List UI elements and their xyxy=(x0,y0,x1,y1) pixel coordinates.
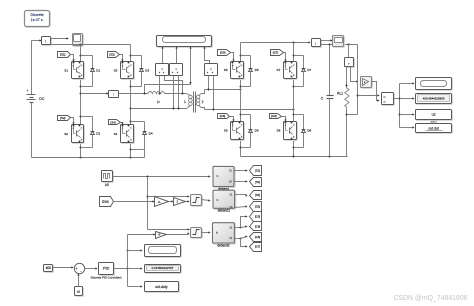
svg-text:[G5]: [G5] xyxy=(255,215,261,219)
svg-text:[G6]: [G6] xyxy=(220,114,226,118)
svg-text:D6: D6 xyxy=(255,128,259,132)
svg-text:[G8]: [G8] xyxy=(255,224,261,228)
svg-text:2: 2 xyxy=(202,100,204,104)
svg-text:[D(k)]: [D(k)] xyxy=(102,200,109,204)
svg-text:u2: u2 xyxy=(77,289,81,293)
svg-text:out.duty: out.duty xyxy=(155,285,168,289)
svg-text:-K-: -K- xyxy=(158,201,162,204)
svg-text:[S4]: [S4] xyxy=(110,120,115,124)
svg-text:[G7]: [G7] xyxy=(273,51,279,55)
svg-text:[G6]: [G6] xyxy=(255,235,261,239)
svg-text:S2: S2 xyxy=(64,132,68,136)
svg-text:S1: S1 xyxy=(64,68,68,72)
svg-text:deband2: deband2 xyxy=(217,243,230,247)
svg-text:[G7]: [G7] xyxy=(255,245,261,249)
svg-text:S5: S5 xyxy=(224,68,228,72)
svg-text:1: 1 xyxy=(184,100,186,104)
svg-text:[S3]: [S3] xyxy=(255,205,260,209)
svg-text:400: 400 xyxy=(46,266,52,270)
svg-text:1e-07 s.: 1e-07 s. xyxy=(31,18,44,22)
svg-text:D2: D2 xyxy=(96,132,100,136)
svg-text:S6: S6 xyxy=(224,129,228,133)
svg-text:out.dut: out.dut xyxy=(428,126,438,130)
svg-text:D1: D1 xyxy=(96,68,100,72)
svg-text:[S2]: [S2] xyxy=(255,180,260,184)
svg-text:[S3]: [S3] xyxy=(109,52,114,56)
svg-text:[S2]: [S2] xyxy=(60,116,65,120)
svg-text:[G5]: [G5] xyxy=(220,51,226,55)
svg-text:D7: D7 xyxy=(307,68,311,72)
svg-text:S8: S8 xyxy=(277,129,281,133)
svg-text:D8: D8 xyxy=(307,128,311,132)
svg-text:[S4]: [S4] xyxy=(255,193,260,197)
svg-text:C: C xyxy=(321,96,324,100)
svg-text:CSDN @mQ_74841806: CSDN @mQ_74841806 xyxy=(393,295,467,302)
svg-text:S4: S4 xyxy=(114,132,118,136)
svg-text:D3: D3 xyxy=(145,68,149,72)
svg-text:Discrete PID Controller1: Discrete PID Controller1 xyxy=(91,276,123,280)
svg-text:out.v: out.v xyxy=(431,120,438,124)
svg-text:S3: S3 xyxy=(114,68,118,72)
svg-text:DC: DC xyxy=(39,97,45,101)
svg-text:+: + xyxy=(75,267,77,271)
svg-text:[S1]: [S1] xyxy=(255,169,260,173)
svg-text:deband1: deband1 xyxy=(218,209,231,213)
svg-text:Discrete: Discrete xyxy=(31,13,44,17)
svg-text:A0: A0 xyxy=(105,183,109,187)
svg-text:0.154809193797: 0.154809193797 xyxy=(152,266,174,270)
svg-text:u2: u2 xyxy=(432,112,436,116)
svg-text:[G8]: [G8] xyxy=(271,114,277,118)
svg-text:D4: D4 xyxy=(149,132,153,136)
svg-text:400.4644319805: 400.4644319805 xyxy=(423,96,445,100)
svg-text:PID: PID xyxy=(103,266,110,271)
svg-text:[S1]: [S1] xyxy=(60,52,65,56)
svg-text:+: + xyxy=(27,89,29,93)
svg-text:D5: D5 xyxy=(255,68,259,72)
svg-text:S7: S7 xyxy=(277,68,281,72)
svg-text:-K-: -K- xyxy=(158,234,161,237)
svg-text:RL1: RL1 xyxy=(337,92,343,96)
